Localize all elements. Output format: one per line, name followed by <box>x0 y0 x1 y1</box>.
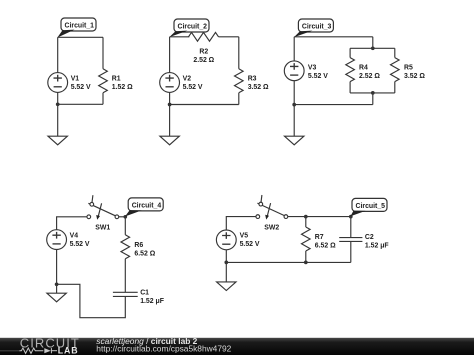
svg-text:C1: C1 <box>140 290 149 297</box>
wire drop from bottom rail <box>372 93 374 105</box>
svg-text:R5: R5 <box>404 65 413 72</box>
wire to ground (circuit 1) <box>57 104 59 136</box>
ground (circuit 4) <box>47 293 66 302</box>
wire left upper (circuit 2) <box>169 37 171 73</box>
label V5 value <box>240 233 260 249</box>
svg-text:1.52 Ω: 1.52 Ω <box>112 84 133 91</box>
flag pointer Circuit_5 <box>351 211 366 217</box>
CircuitLab logo wordmark <box>20 335 80 350</box>
wire switch to node (circuit 4) <box>119 216 126 218</box>
svg-text:1.52 μF: 1.52 μF <box>140 298 164 305</box>
svg-text:1.52 μF: 1.52 μF <box>365 242 389 249</box>
svg-text:R2: R2 <box>199 49 208 56</box>
wire node to R6 (circuit 4) <box>124 217 126 235</box>
wire stub R5 top <box>394 48 396 57</box>
label V4 value <box>70 232 90 248</box>
voltage source V4 <box>47 230 67 250</box>
label Circuit_3 <box>298 19 333 32</box>
svg-text:V2: V2 <box>183 75 192 82</box>
label Circuit_4 <box>128 198 163 211</box>
svg-text:R6: R6 <box>134 242 143 249</box>
wire bottom (circuit 1) <box>58 103 103 105</box>
label R3 value <box>248 75 269 91</box>
ground (circuit 3) <box>285 136 304 145</box>
ground (circuit 2) <box>160 136 179 145</box>
resistor R6 <box>121 235 130 259</box>
wire R7 bottom (circuit 5) <box>305 251 307 262</box>
resistor R2 <box>189 32 219 41</box>
svg-text:Circuit_5: Circuit_5 <box>356 203 386 210</box>
svg-text:Circuit_1: Circuit_1 <box>65 22 95 29</box>
flag pointer Circuit_4 <box>125 210 142 216</box>
wire V4 bottom (circuit 4) <box>56 250 58 285</box>
svg-text:SW1: SW1 <box>95 224 110 231</box>
wire drop to parallel rails <box>372 37 374 49</box>
wire top left (circuit 2) <box>170 36 190 38</box>
svg-text:V4: V4 <box>70 232 79 239</box>
node junction (circuit 3) <box>292 103 296 107</box>
wire R6 to C1 (circuit 4) <box>124 259 126 293</box>
wire to ground (circuit 5) <box>225 262 227 282</box>
svg-text:C2: C2 <box>365 234 374 241</box>
wire left upper (circuit 1) <box>57 37 59 72</box>
node junction top rail <box>371 46 375 50</box>
wire stub R4 top <box>349 48 351 57</box>
label Circuit_2 <box>174 19 209 32</box>
svg-text:5.52 V: 5.52 V <box>70 241 90 248</box>
label V2 value <box>183 75 203 91</box>
wire C2 bottom (circuit 5) <box>350 241 352 262</box>
wire left lower (circuit 1) <box>57 92 59 104</box>
node junction (circuit 1) <box>56 102 60 106</box>
node junction switch (circuit 4) <box>123 215 127 219</box>
node junction R7 bottom <box>304 261 308 265</box>
label Circuit_5 <box>352 198 387 211</box>
wire node to C2 corner (circuit 5) <box>306 216 351 218</box>
wire V5 top (circuit 5) <box>226 217 256 230</box>
flag pointer Circuit_2 <box>169 31 187 37</box>
wire left lower (circuit 2) <box>169 92 171 104</box>
svg-text:V1: V1 <box>71 75 80 82</box>
svg-text:6.52 Ω: 6.52 Ω <box>315 242 336 249</box>
resistor R4 <box>346 58 355 82</box>
logo resistor-diode symbol <box>0 348 57 353</box>
wire C1 bottom (circuit 4) <box>57 284 126 317</box>
resistor R7 <box>302 227 311 251</box>
switch SW2 <box>256 195 288 220</box>
wire to ground (circuit 2) <box>169 105 171 137</box>
label R4 value <box>359 65 380 81</box>
svg-text:SW2: SW2 <box>264 224 279 231</box>
capacitor C2 <box>339 238 362 242</box>
resistor R1 <box>99 69 108 93</box>
wire bottom (circuit 2) <box>170 104 239 106</box>
wire bottom (circuit 3) <box>294 104 373 106</box>
svg-text:R3: R3 <box>248 75 257 82</box>
label R6 value <box>134 242 155 258</box>
label R2 value <box>193 49 214 65</box>
wire right upper (circuit 2) <box>238 37 240 69</box>
switch SW1 <box>87 195 119 220</box>
label R7 value <box>315 234 336 250</box>
wire C2 top (circuit 5) <box>350 217 352 238</box>
node junction ground (circuit 4) <box>55 282 59 286</box>
resistor R3 <box>235 69 244 93</box>
wire right lower (circuit 1) <box>102 93 104 105</box>
svg-text:http://circuitlab.com/cpsa5k8h: http://circuitlab.com/cpsa5k8hw4792 <box>96 344 231 354</box>
wire switch to node (circuit 5) <box>288 216 306 218</box>
svg-text:5.52 V: 5.52 V <box>183 84 203 91</box>
svg-text:Circuit_4: Circuit_4 <box>132 202 162 209</box>
label V3 value <box>308 65 328 81</box>
wire to ground (circuit 4) <box>56 284 58 293</box>
svg-text:Circuit_2: Circuit_2 <box>178 23 208 30</box>
svg-text:R7: R7 <box>315 234 324 241</box>
voltage source V3 <box>284 61 304 81</box>
voltage source V5 <box>216 230 236 250</box>
wire right lower (circuit 2) <box>238 93 240 105</box>
wire stub R5 bottom <box>394 82 396 93</box>
capacitor C1 <box>113 292 138 296</box>
node junction (circuit 2) <box>168 103 172 107</box>
svg-text:6.52 Ω: 6.52 Ω <box>134 251 155 258</box>
footer author line <box>96 336 231 353</box>
wire top rail (circuit 3) <box>350 47 395 49</box>
label R5 value <box>404 65 425 81</box>
svg-text:3.52 Ω: 3.52 Ω <box>248 84 269 91</box>
wire top right (circuit 2) <box>219 36 239 38</box>
wire left lower (circuit 3) <box>293 81 295 105</box>
wire V4 top (circuit 4) <box>57 217 88 230</box>
svg-text:LAB: LAB <box>58 345 79 355</box>
flag pointer Circuit_3 <box>294 31 313 38</box>
node junction R7 top (circuit 5) <box>304 215 308 219</box>
svg-text:3.52 Ω: 3.52 Ω <box>404 73 425 80</box>
svg-text:2.52 Ω: 2.52 Ω <box>359 73 380 80</box>
wire stub R4 bottom <box>349 82 351 93</box>
resistor R5 <box>391 58 400 82</box>
node junction V5 bottom <box>224 261 228 265</box>
svg-text:R4: R4 <box>359 65 368 72</box>
wire bottom rail (circuit 3) <box>350 92 395 94</box>
ground (circuit 1) <box>48 136 67 145</box>
svg-text:V3: V3 <box>308 65 317 72</box>
svg-text:V5: V5 <box>240 233 249 240</box>
wire left upper (circuit 3) <box>293 37 295 61</box>
wire node to R7 (circuit 5) <box>305 217 307 227</box>
voltage source V2 <box>160 73 180 93</box>
svg-text:5.52 V: 5.52 V <box>71 84 91 91</box>
label V1 value <box>71 75 91 91</box>
svg-text:5.52 V: 5.52 V <box>308 73 328 80</box>
wire top (circuit 1) <box>58 36 103 38</box>
label C2 value <box>365 234 389 250</box>
svg-text:2.52 Ω: 2.52 Ω <box>193 57 214 64</box>
wire to ground (circuit 3) <box>293 105 295 137</box>
label R1 value <box>112 75 133 91</box>
wire V5 bottom (circuit 5) <box>225 250 227 263</box>
svg-text:Circuit_3: Circuit_3 <box>302 23 332 30</box>
wire top (circuit 3) <box>294 36 373 38</box>
svg-text:R1: R1 <box>112 75 121 82</box>
label Circuit_1 <box>61 18 96 31</box>
wire bottom rail (circuit 5) <box>226 261 350 263</box>
svg-text:5.52 V: 5.52 V <box>240 241 260 248</box>
label C1 value <box>140 290 164 306</box>
ground (circuit 5) <box>217 282 236 291</box>
node junction bottom rail <box>371 91 375 95</box>
wire right upper (circuit 1) <box>102 37 104 69</box>
node junction C2 (circuit 5) <box>349 215 353 219</box>
voltage source V1 <box>48 73 68 93</box>
flag pointer Circuit_1 <box>57 30 74 38</box>
